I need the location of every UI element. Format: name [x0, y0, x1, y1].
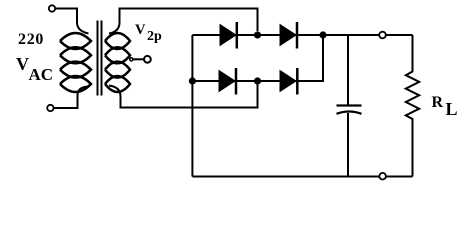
terminal output bottom [379, 173, 386, 180]
transformer core [98, 21, 102, 96]
node Bp junction dot [254, 77, 261, 84]
transformer T1 primary winding [60, 33, 91, 92]
wire bottom rail [192, 176, 412, 178]
node Ap junction dot [189, 77, 196, 84]
diode D4 [280, 68, 297, 95]
wire center tap lead [133, 58, 144, 60]
wire top diode row [192, 34, 412, 36]
wire primary top lead [55, 9, 88, 34]
wire secondary bottom lead to bridge bottom node [109, 81, 258, 108]
center tap small circle [130, 58, 133, 61]
label 220 [18, 31, 44, 49]
diode D2 [280, 22, 297, 49]
label VAC [16, 54, 29, 75]
resistor RL [406, 35, 419, 177]
transformer T1 secondary winding [105, 33, 130, 92]
terminal bottom-left [47, 105, 53, 111]
wire left bridge vertical [191, 35, 193, 177]
wire secondary top lead + top rail to bridge [109, 9, 258, 34]
diode D3 [219, 68, 236, 95]
label V2p [135, 22, 145, 39]
terminal center tap [144, 56, 151, 63]
node C junction dot [319, 31, 326, 38]
label RL [432, 94, 444, 112]
terminal output top [379, 32, 386, 39]
node B junction dot [254, 31, 261, 38]
wire primary bottom lead [54, 87, 89, 109]
capacitor C1 [337, 35, 362, 177]
diode D1 [220, 22, 237, 49]
terminal top-left [49, 5, 55, 11]
wire bottom diode row [192, 35, 323, 81]
